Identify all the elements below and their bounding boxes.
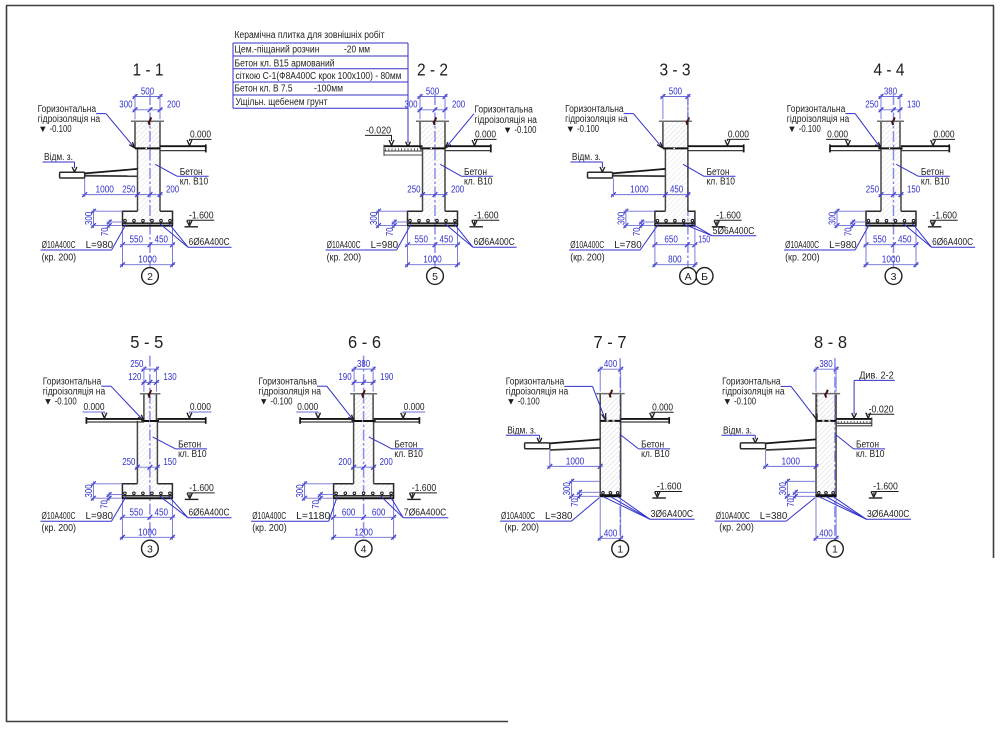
section 5-5 footing outline <box>122 484 172 498</box>
section 2-2 centerline axis <box>434 94 436 268</box>
section 2-2 column <box>416 121 449 148</box>
svg-text:550: 550 <box>414 235 428 246</box>
callout table text rows <box>235 29 402 108</box>
section 2-2 bottom rebar label Ø10А400С L=980 <box>326 224 412 263</box>
svg-text:2: 2 <box>147 271 153 283</box>
section 1-1 vertical dimension 70 <box>100 220 123 237</box>
svg-text:-0.100: -0.100 <box>50 124 72 135</box>
section 2-2 mesh rebar label 6Ø6А400С <box>445 224 517 249</box>
section 6-6 stem walls <box>354 421 374 484</box>
svg-text:L=780: L=780 <box>614 240 642 251</box>
svg-text:кл. В10: кл. В10 <box>394 449 423 460</box>
svg-text:1000: 1000 <box>566 456 585 467</box>
section 5-5 bottom rebar label Ø10А400С L=980 <box>40 497 126 534</box>
section 1-1 middle dimensions <box>82 179 179 198</box>
section 7-7 concrete grade label <box>621 435 670 460</box>
section 1-1 top dimension 500 <box>133 86 163 119</box>
svg-text:5: 5 <box>432 271 438 283</box>
section 5-5 title <box>130 332 163 352</box>
section 5-5 vertical dimension 70 <box>100 492 123 509</box>
section 6-6 column break mark <box>362 390 365 398</box>
section 1-1 column <box>131 121 164 148</box>
svg-text:200: 200 <box>452 100 466 111</box>
section 4-4 title <box>874 60 905 80</box>
section 4-4 axis bubble 3 <box>885 268 902 285</box>
section 5-5 concrete grade label <box>153 437 208 460</box>
section 2-2 vertical dimension 70 <box>385 220 408 237</box>
section 5-5 level mark 0.000 right <box>187 402 211 418</box>
section 5-5 middle dimensions <box>122 457 177 469</box>
section 1-1 ground level label (Vidm. z.) <box>43 152 77 172</box>
section 7-7 ground level label (Vidm. z.) <box>506 425 542 442</box>
section 4-4 footing outline <box>866 211 916 225</box>
svg-text:200: 200 <box>380 457 394 468</box>
section 7-7 wall edges <box>596 394 625 497</box>
section 1-1 level mark -1.600 <box>185 210 215 226</box>
svg-text:Ø10А400С: Ø10А400С <box>42 511 76 522</box>
section 8-8 pavement curb <box>740 443 765 449</box>
svg-text:250: 250 <box>122 185 136 196</box>
section 8-8 vertical rebar label Ø10А400С L=380 <box>715 498 816 534</box>
section 4-4 footing dimension 550/450 <box>864 227 919 267</box>
svg-text:Ø10А400С: Ø10А400С <box>252 511 286 522</box>
svg-text:150: 150 <box>163 457 177 468</box>
svg-text:450: 450 <box>154 235 168 246</box>
section 4-4 top dimension 250/130 <box>865 100 920 113</box>
svg-text:70: 70 <box>843 227 854 236</box>
section 1-1 title <box>133 60 164 80</box>
svg-text:А: А <box>685 271 692 283</box>
section 3-3 centerline axis <box>687 94 689 268</box>
section 2-2 vertical dimension 300 <box>369 209 407 228</box>
svg-text:250: 250 <box>407 185 421 196</box>
svg-text:70: 70 <box>786 498 797 507</box>
section 1-1 centerline axis <box>149 94 151 268</box>
section 2-2 title <box>417 60 448 80</box>
svg-text:Ø10А400С: Ø10А400С <box>785 240 819 251</box>
section 3-3 column break mark <box>687 117 690 125</box>
section 2-2 level mark -0.020 left <box>365 126 394 146</box>
svg-text:▼: ▼ <box>38 124 47 135</box>
section 3-3 concrete grade label <box>683 164 735 187</box>
section 2-2 footing rebar mesh and bottom <box>407 219 458 225</box>
section 8-8 level mark -0.020 right <box>866 404 895 418</box>
section 6-6 middle dimensions <box>338 457 393 469</box>
section 6-6 top dimension 190/190 <box>338 372 393 385</box>
section 8-8 horizontal hydro-insulation line <box>816 420 836 422</box>
svg-text:L=980: L=980 <box>829 240 857 251</box>
section 7-7 centerline axis <box>619 358 621 541</box>
section 4-4 floor slab right (0.000) <box>901 144 949 152</box>
section 4-4 concrete grade label <box>896 164 950 187</box>
section 3-3 mesh rebar label 5Ø6А400С <box>683 224 757 237</box>
section 2-2 stem walls <box>423 148 446 211</box>
svg-text:6Ø6А400С: 6Ø6А400С <box>189 237 230 248</box>
materials callout table <box>233 43 410 147</box>
svg-text:L=980: L=980 <box>86 511 114 522</box>
svg-text:3Ø6А400С: 3Ø6А400С <box>651 509 694 520</box>
section 8-8 top dimension 380 <box>814 359 839 392</box>
svg-text:1000: 1000 <box>423 255 442 266</box>
section 6-6 vertical dimension 70 <box>311 492 334 509</box>
svg-text:600: 600 <box>372 507 386 518</box>
section 2-2 footing overall dimension 1000 <box>405 255 460 267</box>
svg-text:сіткою С-1(Ф8А400С крок 100х10: сіткою С-1(Ф8А400С крок 100х100) - 80мм <box>236 71 402 82</box>
section 3-3 column <box>659 121 692 148</box>
section 7-7 horizontal hydro-insulation line <box>600 420 621 422</box>
svg-text:-1.600: -1.600 <box>474 210 499 221</box>
section 1-1 footing overall dimension 1000 <box>120 255 175 267</box>
svg-text:8 - 8: 8 - 8 <box>814 332 847 352</box>
svg-text:650: 650 <box>664 235 678 246</box>
svg-text:800: 800 <box>668 255 682 266</box>
svg-text:(кр. 200): (кр. 200) <box>505 522 540 533</box>
svg-text:(кр. 200): (кр. 200) <box>570 253 605 264</box>
svg-text:1200: 1200 <box>354 527 373 538</box>
section 5-5 footing rebar mesh and bottom <box>122 492 173 498</box>
svg-text:▼: ▼ <box>506 396 515 407</box>
svg-text:70: 70 <box>570 498 581 507</box>
svg-text:7 - 7: 7 - 7 <box>594 332 627 352</box>
svg-text:300: 300 <box>295 484 306 498</box>
section 6-6 floor slab left (0.000) <box>300 417 354 424</box>
svg-text:Цем.-піщаний розчин: Цем.-піщаний розчин <box>235 45 320 56</box>
section 7-7 title <box>594 332 627 352</box>
svg-text:250: 250 <box>866 185 880 196</box>
svg-text:120: 120 <box>128 372 142 383</box>
svg-text:70: 70 <box>632 227 643 236</box>
svg-text:L=980: L=980 <box>371 240 399 251</box>
svg-text:Ø10А400С: Ø10А400С <box>501 511 535 522</box>
svg-text:-0.100: -0.100 <box>577 124 599 135</box>
section 6-6 column <box>350 394 377 421</box>
section 4-4 floor slab left (0.000) <box>830 144 881 152</box>
section 7-7 wall bottom rebar mesh <box>600 492 622 497</box>
svg-text:Відм. з.: Відм. з. <box>723 425 752 436</box>
section 3-3 hydro-insulation label <box>565 104 663 148</box>
section 2-2 top dimension 500 <box>418 86 448 119</box>
svg-text:200: 200 <box>451 185 465 196</box>
section 8-8 wall break mark <box>825 390 828 398</box>
svg-text:250: 250 <box>865 100 879 111</box>
svg-text:4 - 4: 4 - 4 <box>874 60 905 80</box>
svg-text:-0.100: -0.100 <box>55 396 77 407</box>
section 5-5 centerline axis <box>149 356 151 541</box>
svg-text:Бетон кл. В15 армований: Бетон кл. В15 армований <box>235 58 335 69</box>
svg-text:-100мм: -100мм <box>314 84 343 95</box>
section 3-3 concrete body hatch <box>655 121 695 223</box>
section 1-1 column break mark <box>149 117 152 125</box>
svg-text:300: 300 <box>562 482 573 496</box>
section 8-8 vertical dimension 300 <box>778 479 816 499</box>
svg-text:600: 600 <box>342 507 356 518</box>
svg-text:5 - 5: 5 - 5 <box>130 332 163 352</box>
svg-text:200: 200 <box>166 185 180 196</box>
section 8-8 wall edges <box>812 394 840 497</box>
section 6-6 axis bubble 4 <box>355 540 372 557</box>
section 7-7 vertical dimension 70 <box>570 490 600 507</box>
svg-text:Ø10А400С: Ø10А400С <box>42 240 76 251</box>
svg-text:550: 550 <box>129 235 143 246</box>
svg-text:-1.600: -1.600 <box>716 210 741 221</box>
svg-text:400: 400 <box>819 528 833 539</box>
svg-text:3: 3 <box>891 271 897 283</box>
section 7-7 wall concrete hatch <box>600 394 621 495</box>
section 6-6 concrete body hatch <box>334 394 394 496</box>
svg-text:L=980: L=980 <box>86 240 114 251</box>
svg-text:1000: 1000 <box>95 185 114 196</box>
section 3-3 footing outline <box>655 211 695 225</box>
svg-text:▼: ▼ <box>723 396 732 407</box>
section 3-3 title <box>660 60 691 80</box>
section 4-4 centerline axis <box>893 94 895 268</box>
section 5-5 hydro-insulation label <box>43 376 144 420</box>
section 2-2 middle dimensions <box>407 185 464 197</box>
svg-text:1: 1 <box>832 544 838 556</box>
section 5-5 stem walls <box>137 421 157 484</box>
section 2-2 level mark 0.000 right <box>472 130 496 146</box>
section 6-6 footing rebar mesh and bottom <box>333 492 394 498</box>
section 7-7 floor slab right (0.000) <box>621 417 670 424</box>
svg-text:380: 380 <box>884 86 898 97</box>
svg-text:400: 400 <box>604 359 618 370</box>
section 2-2 floor slab right (0.000) <box>445 144 491 152</box>
svg-text:Керамічна плитка для зовнішніх: Керамічна плитка для зовнішніх робіт <box>235 29 385 41</box>
svg-text:(кр. 200): (кр. 200) <box>42 523 77 534</box>
section 2-2 footing dimension 550/450 <box>405 227 460 267</box>
section 4-4 footing rebar mesh and bottom <box>866 219 917 225</box>
svg-text:550: 550 <box>129 507 143 518</box>
svg-text:-0.100: -0.100 <box>514 125 536 136</box>
section 6-6 footing outline <box>334 484 394 498</box>
section 1-1 pavement slope <box>85 169 138 176</box>
svg-text:200: 200 <box>167 100 181 111</box>
section 4-4 level mark 0.000 right <box>931 130 955 146</box>
section 1-1 footing rebar mesh and bottom <box>122 219 173 225</box>
section 5-5 axis bubble 3 <box>142 540 159 557</box>
section 3-3 axis bubble Б <box>696 268 713 285</box>
section 5-5 floor slab right (0.000) <box>157 417 205 424</box>
svg-text:L=1180: L=1180 <box>296 511 330 522</box>
svg-text:(кр. 200): (кр. 200) <box>42 253 77 264</box>
section 5-5 footing dimension 550/450 <box>120 500 175 540</box>
section 6-6 level mark 0.000 right <box>401 402 425 418</box>
section 4-4 column break mark <box>892 117 895 125</box>
svg-text:1 - 1: 1 - 1 <box>133 60 164 80</box>
section 4-4 hydro-insulation label <box>787 104 881 148</box>
svg-text:130: 130 <box>907 100 921 111</box>
svg-text:-0.100: -0.100 <box>734 396 756 407</box>
svg-text:Ø10А400С: Ø10А400С <box>327 240 361 251</box>
svg-text:(кр. 200): (кр. 200) <box>785 253 820 264</box>
svg-text:-1.600: -1.600 <box>412 483 437 494</box>
section 7-7 top dimension 400 <box>598 359 624 392</box>
section 2-2 level mark -1.600 <box>470 210 500 226</box>
section 6-6 centerline axis <box>363 356 365 541</box>
section 4-4 level mark 0.000 left <box>826 130 850 146</box>
svg-text:кл. В10: кл. В10 <box>180 176 209 187</box>
section 7-7 pavement dimension 1000 <box>547 451 602 469</box>
svg-text:▼: ▼ <box>787 124 796 135</box>
svg-text:-1.600: -1.600 <box>873 482 898 493</box>
section 6-6 mesh rebar label 7Ø6А400С <box>381 496 448 518</box>
svg-text:70: 70 <box>385 227 396 236</box>
svg-text:1: 1 <box>617 544 623 556</box>
svg-text:кл. В10: кл. В10 <box>921 176 950 187</box>
section 5-5 concrete body hatch <box>122 394 172 496</box>
svg-text:Бетон кл. В 7.5: Бетон кл. В 7.5 <box>235 84 293 95</box>
svg-text:Ø10А400С: Ø10А400С <box>716 511 750 522</box>
section 7-7 axis bubble 1 <box>612 540 629 557</box>
svg-text:300: 300 <box>404 100 418 111</box>
section 8-8 top column <box>817 393 836 421</box>
section 5-5 vertical dimension 300 <box>84 481 122 500</box>
section 6-6 concrete grade label <box>369 437 424 460</box>
section 1-1 concrete grade label <box>155 164 209 187</box>
svg-text:▼: ▼ <box>43 396 52 407</box>
svg-text:3Ø6А400С: 3Ø6А400С <box>867 509 910 520</box>
section 1-1 hydro-insulation label <box>38 104 135 148</box>
section 8-8 mesh rebar label 3Ø6А400С <box>819 497 911 521</box>
svg-text:2 - 2: 2 - 2 <box>417 60 448 80</box>
section 7-7 mesh rebar label 3Ø6А400С <box>603 497 695 521</box>
section 3-3 level mark 0.000 right <box>725 130 749 146</box>
svg-text:200: 200 <box>338 457 352 468</box>
section 3-3 top dimension 500 <box>660 86 690 119</box>
svg-text:300: 300 <box>369 211 380 225</box>
svg-text:450: 450 <box>898 235 912 246</box>
section 4-4 level mark -1.600 <box>928 210 958 226</box>
section 2-2 footing outline <box>408 211 458 225</box>
section 6-6 footing dimension 600/600 <box>331 500 396 540</box>
section 8-8 pavement dimension 1000 <box>763 451 818 469</box>
section 1-1 vertical dimension 300 <box>84 209 122 228</box>
svg-text:Б: Б <box>701 271 708 283</box>
svg-text:кл. В10: кл. В10 <box>707 176 736 187</box>
section 4-4 footing overall dimension 1000 <box>864 255 919 267</box>
section 2-2 axis bubble 5 <box>427 268 444 285</box>
svg-text:3: 3 <box>147 544 153 556</box>
section 5-5 level mark -1.600 <box>185 483 215 499</box>
section 2-2 tiled floor slab left (-0.020) <box>384 145 423 156</box>
section 3-3 horizontal hydro-insulation line <box>663 147 688 149</box>
section 1-1 footing outline <box>123 211 173 225</box>
section 6-6 footing overall dimension 1200 <box>331 527 396 539</box>
section 1-1 pavement curb <box>60 172 85 178</box>
svg-text:400: 400 <box>604 528 618 539</box>
section 8-8 wall concrete hatch <box>816 394 836 495</box>
svg-text:70: 70 <box>100 500 111 509</box>
section 8-8 tiled floor slab right (-0.020) <box>836 417 872 426</box>
section 8-8 pavement slope <box>766 439 816 450</box>
svg-text:500: 500 <box>141 86 155 97</box>
svg-text:190: 190 <box>338 372 352 383</box>
svg-text:70: 70 <box>311 500 322 509</box>
section 7-7 hydro-insulation label <box>506 376 606 420</box>
section 2-2 concrete grade label <box>440 164 493 187</box>
svg-text:Ущільн. щебенем грунт: Ущільн. щебенем грунт <box>236 96 328 108</box>
section 7-7 vertical dimension 300 <box>562 479 600 499</box>
section 6-6 horizontal hydro-insulation line <box>352 420 376 422</box>
svg-text:380: 380 <box>357 359 371 370</box>
section 6-6 title <box>348 332 381 352</box>
svg-text:450: 450 <box>439 235 453 246</box>
svg-text:1000: 1000 <box>782 456 801 467</box>
section 2-2 top dimension 300/200 <box>404 100 465 113</box>
section 8-8 bottom dimension 400 <box>814 498 839 541</box>
section 3-3 floor slab right (0.000) <box>688 144 744 152</box>
svg-text:6Ø6А400С: 6Ø6А400С <box>189 508 230 519</box>
svg-text:-0.100: -0.100 <box>799 124 821 135</box>
svg-text:-1.600: -1.600 <box>932 210 957 221</box>
section 5-5 column <box>140 394 161 421</box>
section 4-4 bottom rebar label Ø10А400С L=980 <box>784 224 870 263</box>
svg-text:150: 150 <box>907 185 921 196</box>
section 8-8 centerline axis <box>834 358 836 541</box>
svg-text:5Ø6А400С: 5Ø6А400С <box>713 226 755 237</box>
section 2-2 hydro-insulation label <box>445 105 537 149</box>
section 7-7 bottom dimension 400 <box>598 498 624 541</box>
svg-text:380: 380 <box>819 359 833 370</box>
section 8-8 title <box>814 332 847 352</box>
section 2-2 horizontal hydro-insulation line <box>420 147 445 149</box>
svg-text:300: 300 <box>84 211 95 225</box>
svg-text:Відм. з.: Відм. з. <box>507 425 536 436</box>
section 1-1 axis bubble 2 <box>142 268 159 285</box>
section 6-6 top dimension 380 <box>352 359 376 392</box>
section 4-4 vertical dimension 300 <box>828 209 866 228</box>
section 7-7 level mark 0.000 right <box>650 402 674 418</box>
section 4-4 horizontal hydro-insulation line <box>878 147 902 149</box>
section 5-5 level mark 0.000 left <box>83 402 107 418</box>
svg-text:-0.100: -0.100 <box>518 396 540 407</box>
svg-text:кл. В10: кл. В10 <box>178 449 207 460</box>
svg-text:(кр. 200): (кр. 200) <box>327 253 362 264</box>
svg-text:1000: 1000 <box>138 527 157 538</box>
section 5-5 column break mark <box>149 390 152 398</box>
section 5-5 top dimension 120/130 <box>128 372 177 385</box>
section 3-3 footing dimension 650/150 <box>652 227 710 267</box>
svg-text:300: 300 <box>828 211 839 225</box>
svg-text:-20 мм: -20 мм <box>344 45 370 56</box>
section 3-3 pavement slope <box>613 169 666 176</box>
svg-text:450: 450 <box>670 185 684 196</box>
section 3-3 footing rebar mesh and bottom <box>654 219 695 225</box>
svg-text:7Ø6А400С: 7Ø6А400С <box>404 508 447 519</box>
section 3-3 vertical dimension 300 <box>617 209 655 228</box>
section 8-8 vertical dimension 70 <box>786 490 816 507</box>
section 3-3 middle dimensions <box>611 179 691 198</box>
section 1-1 level mark 0.000 right <box>187 130 211 146</box>
svg-text:1000: 1000 <box>138 255 157 266</box>
section 8-8 axis bubble 1 <box>827 540 844 557</box>
section 6-6 bottom rebar label Ø10А400С L=1180 <box>251 497 337 534</box>
section 3-3 bottom rebar label Ø10А400С L=780 <box>569 224 658 263</box>
section 7-7 pavement slope <box>550 439 600 450</box>
section 6-6 vertical dimension 300 <box>295 481 333 500</box>
section 1-1 bottom rebar label Ø10А400С L=980 <box>41 224 127 263</box>
svg-text:300: 300 <box>119 100 133 111</box>
section 5-5 footing overall dimension 1000 <box>120 527 175 539</box>
section 4-4 middle dimensions <box>866 185 921 197</box>
svg-text:550: 550 <box>873 235 887 246</box>
svg-text:6Ø6А400С: 6Ø6А400С <box>474 237 515 248</box>
section 1-1 horizontal hydro-insulation line <box>135 147 160 149</box>
svg-text:▼: ▼ <box>259 396 268 407</box>
svg-text:250: 250 <box>130 359 144 370</box>
section 8-8 hydro-insulation label <box>722 376 817 420</box>
svg-text:(кр. 200): (кр. 200) <box>719 522 754 533</box>
